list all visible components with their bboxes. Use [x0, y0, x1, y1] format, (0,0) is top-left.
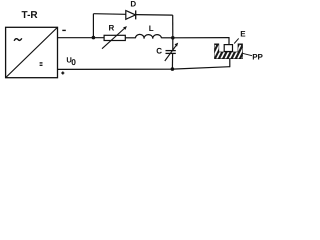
wire: top output from T-R to resistor [58, 37, 105, 39]
pointer line to label PP [242, 53, 252, 55]
wire: diode branch right vertical [172, 15, 174, 38]
DC symbol = inside T-R box [40, 62, 43, 64]
polarity plus at bottom output [61, 72, 64, 74]
polarity minus at top output [62, 29, 66, 31]
capacitor C top plate [166, 50, 176, 52]
svg-text:0: 0 [71, 57, 76, 67]
wire: inductor to right node [162, 37, 173, 39]
wire: diode branch left vertical [92, 14, 94, 38]
capacitor C feed wire lower [171, 53, 173, 69]
svg-text:L: L [149, 24, 154, 33]
AC symbol ~ inside T-R box [14, 38, 22, 41]
svg-text:D: D [130, 0, 136, 8]
wire: diode branch top horizontal right part [136, 14, 173, 17]
node junction dot bottom (capacitor to bottom rail) [171, 67, 175, 71]
capacitor C feed wire upper [172, 38, 174, 51]
svg-text:T-R: T-R [22, 10, 39, 21]
wire: resistor to inductor [125, 37, 135, 39]
diode D [126, 11, 136, 20]
wire: right node to electrode bend [173, 37, 230, 39]
svg-text:PP: PP [252, 52, 263, 61]
svg-text:E: E [240, 29, 246, 38]
inductor L [135, 34, 161, 38]
wire: workpiece to bottom rail connector [229, 58, 231, 67]
capacitor C bottom plate [166, 52, 176, 54]
wire: bottom rail from T-R to workpiece connector [58, 67, 230, 70]
node junction dot left (diode branch tap) [92, 36, 96, 40]
T-R box diagonal [6, 28, 58, 78]
wire: bend down to electrode [228, 37, 230, 44]
pointer line to label E [234, 38, 239, 43]
node junction dot right (capacitor tap) [171, 36, 175, 40]
svg-text:R: R [109, 24, 115, 33]
capacitor C variable arrow [165, 45, 177, 61]
svg-text:C: C [156, 47, 162, 56]
transformer-rectifier T-R box [6, 27, 58, 77]
workpiece PP hatched trough [209, 44, 249, 61]
resistor R variable arrow [102, 28, 125, 49]
resistor R body [104, 35, 125, 40]
electrode E body [224, 45, 232, 52]
wire: diode branch top horizontal left part [93, 13, 125, 16]
